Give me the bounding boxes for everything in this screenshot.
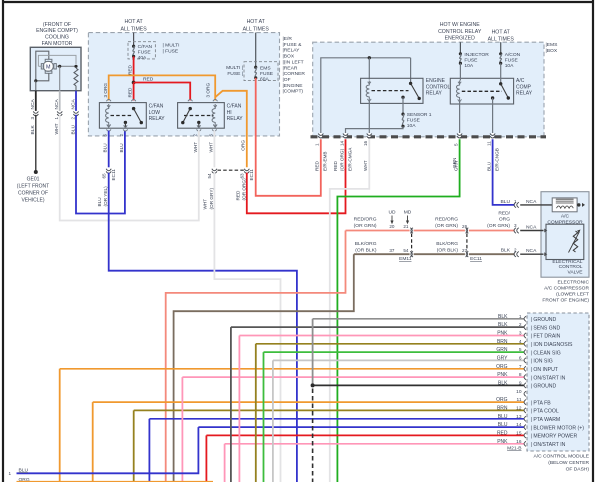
- wire BLK motor pin 3: [35, 91, 37, 112]
- wire module pin 15 vertical: [205, 435, 207, 482]
- svg-text:| FET DRAIN: | FET DRAIN: [531, 334, 561, 340]
- svg-text:BLK/ORG: BLK/ORG: [436, 241, 458, 247]
- svg-text:PNK: PNK: [497, 331, 508, 337]
- module pin 7 connector arc: [524, 366, 526, 371]
- relay C/FAN LOW box: [99, 103, 146, 129]
- svg-text:NCA: NCA: [526, 224, 537, 230]
- EMS box pin 11 connector arcs: [491, 133, 494, 137]
- wire WHT (OR GRY) 54 down to bottom: [214, 173, 280, 482]
- svg-text:10A: 10A: [505, 63, 514, 69]
- svg-text:5: 5: [103, 134, 108, 137]
- wire module pin 7 vertical: [59, 369, 61, 482]
- svg-text:| GROUND: | GROUND: [531, 317, 557, 323]
- svg-text:BLU: BLU: [103, 143, 108, 153]
- svg-text:E/R-CNGB: E/R-CNGB: [494, 148, 499, 171]
- wire module pin 12 vertical: [133, 410, 135, 482]
- svg-text:9: 9: [519, 380, 522, 386]
- svg-text:|(IN LEFT: |(IN LEFT: [283, 59, 304, 65]
- svg-text:BLU: BLU: [498, 414, 508, 420]
- svg-text:11: 11: [486, 141, 491, 146]
- svg-text:CORNER OF: CORNER OF: [18, 191, 48, 197]
- svg-text:2: 2: [70, 117, 75, 120]
- connector EC11 on BLK/ORG row: [465, 253, 469, 256]
- svg-text:(OR ORG): (OR ORG): [339, 148, 344, 171]
- svg-text:C/FAN: C/FAN: [227, 104, 242, 110]
- svg-text:| PTA WARM: | PTA WARM: [531, 417, 561, 423]
- svg-text:COMP: COMP: [516, 84, 532, 90]
- engine control relay dashed link: [372, 90, 409, 92]
- svg-text:HOT AT: HOT AT: [492, 30, 511, 36]
- wire A/C comp relay coil to EMS pin 5: [459, 102, 461, 134]
- svg-text:VEHICLE): VEHICLE): [21, 198, 44, 204]
- svg-text:RED: RED: [235, 190, 240, 201]
- A/C compressor box (shaded): [541, 192, 589, 278]
- wire motor BLK inside box: [35, 81, 37, 91]
- svg-text:(OR GRN): (OR GRN): [354, 223, 377, 229]
- connector compressor pin1: [514, 202, 516, 207]
- svg-text:NCA: NCA: [30, 98, 36, 109]
- svg-text:OF DASH): OF DASH): [566, 467, 590, 473]
- svg-text:ELECTRICAL: ELECTRICAL: [552, 259, 582, 265]
- svg-text:FUSE: FUSE: [138, 50, 152, 56]
- svg-text:5: 5: [519, 347, 522, 353]
- svg-text:MD: MD: [404, 210, 412, 216]
- svg-text:|RELAY: |RELAY: [283, 48, 301, 54]
- svg-text:2: 2: [119, 134, 124, 137]
- module pin 12 connector arc: [524, 408, 526, 413]
- wire BLK module pin 1: [313, 318, 525, 320]
- svg-text:WHT: WHT: [54, 123, 60, 134]
- svg-text:M21-B: M21-B: [507, 445, 521, 451]
- wire GRN EMS pin5 down: [337, 139, 459, 482]
- svg-text:1: 1: [54, 117, 59, 120]
- svg-text:RED: RED: [128, 64, 133, 75]
- wire bus down to engine control relay coil: [368, 58, 370, 80]
- svg-text:RED: RED: [497, 430, 508, 436]
- module pin 14 connector arc: [524, 425, 526, 430]
- C/FAN LOW relay top pin arcs: [106, 99, 111, 101]
- C/FAN HI relay bottom pin arcs: [197, 129, 202, 131]
- svg-text:NCA: NCA: [70, 98, 76, 109]
- fuse EMS FUSE 60A: [254, 66, 257, 69]
- svg-text:20: 20: [389, 224, 395, 229]
- wire WHT motor to fan relay junction: [60, 115, 199, 221]
- svg-text:|CORNER: |CORNER: [283, 71, 306, 77]
- svg-text:37: 37: [389, 248, 395, 253]
- svg-text:A/C CONTROL MODULE: A/C CONTROL MODULE: [533, 454, 589, 460]
- module pin 15 connector arc: [524, 433, 526, 438]
- svg-text:RELAY: RELAY: [426, 91, 443, 97]
- svg-text:3: 3: [519, 331, 522, 337]
- svg-text:BLU: BLU: [19, 467, 29, 473]
- svg-text:CONTROL: CONTROL: [426, 84, 451, 90]
- svg-text:| ION SIG: | ION SIG: [531, 359, 553, 365]
- wire GRY module pin 6: [273, 359, 525, 361]
- svg-text:BLK: BLK: [498, 322, 508, 328]
- A/C comp relay output contact: [491, 96, 494, 99]
- A/C comp relay coil: [456, 81, 459, 103]
- wire NCA stub pin3: [520, 230, 543, 232]
- C/FAN HI relay top pin arcs: [188, 99, 193, 101]
- svg-text:WHT: WHT: [363, 160, 368, 171]
- svg-text:(FRONT OF: (FRONT OF: [43, 22, 71, 28]
- wire BLK to ground GE01: [35, 115, 37, 171]
- wire RED module pin 15: [206, 434, 524, 436]
- motor wire outer loop: [38, 55, 76, 66]
- svg-text:GE01: GE01: [27, 177, 40, 183]
- wire BLK/ORG (OR BLK) compressor row: [354, 253, 515, 255]
- wire BRN module pin 12: [134, 409, 525, 411]
- fuse A/CON FUSE 10A: [499, 52, 502, 55]
- svg-text:16: 16: [516, 439, 522, 445]
- wire ORG module pin 11: [93, 401, 525, 403]
- wire RED (OR ORG) EC11-63 to EMS pin 14: [247, 139, 346, 213]
- arrow MD: [407, 216, 409, 222]
- wire BLU motor pin 2 upper: [75, 91, 77, 112]
- svg-text:HOT W/ ENGINE: HOT W/ ENGINE: [440, 22, 481, 28]
- svg-text:(LOWER LEFT: (LOWER LEFT: [556, 292, 589, 298]
- module pin 4 connector arc: [524, 341, 526, 346]
- svg-text:ALL TIMES: ALL TIMES: [488, 36, 515, 42]
- wire PNK module pin 3: [239, 335, 524, 337]
- svg-text:|REAR: |REAR: [283, 65, 298, 71]
- svg-text:E/R-CMGA: E/R-CMGA: [347, 147, 352, 171]
- svg-text:UD: UD: [388, 210, 396, 216]
- wire motor WHT inside box: [59, 66, 61, 90]
- wire BLK module pin 2: [231, 326, 525, 328]
- svg-text:| MEMORY POWER: | MEMORY POWER: [531, 434, 578, 440]
- wire SENSOR 1 fuse to EMS pin 14: [346, 126, 404, 134]
- connector EC11 on RED/ORG row: [465, 229, 469, 232]
- svg-text:| CLEAN SIG: | CLEAN SIG: [531, 350, 561, 356]
- wire feed to INJECTOR fuse: [459, 42, 461, 54]
- svg-text:8: 8: [519, 372, 522, 378]
- arrow UD: [391, 216, 393, 222]
- svg-text:NCA: NCA: [526, 199, 537, 205]
- wire BLU blower riser: [17, 427, 199, 473]
- connector EC11-54: [213, 168, 216, 172]
- svg-text:| ON/START IN: | ON/START IN: [531, 375, 566, 381]
- svg-text:ENERGIZED: ENERGIZED: [445, 36, 476, 42]
- module pin 11 connector arc: [524, 400, 526, 405]
- svg-text:3: 3: [514, 223, 517, 228]
- svg-text:|FUSE &: |FUSE &: [283, 42, 303, 48]
- wire RED junction down to C/FAN LOW relay pin 1: [133, 83, 135, 101]
- wire feed to C/FAN fuse: [133, 33, 135, 47]
- wire BLU module pin 14: [198, 426, 524, 428]
- C/FAN LOW relay dashed link: [111, 115, 134, 117]
- relay ENGINE CONTROL box: [361, 78, 423, 103]
- wire A/CON fuse to A/C comp relay switch: [500, 63, 502, 84]
- wire module pin 8 vertical: [181, 377, 183, 482]
- svg-text:| BLOWER MOTOR (+): | BLOWER MOTOR (+): [531, 425, 585, 431]
- svg-text:2: 2: [519, 322, 522, 328]
- wire RED fuse to junction: [133, 56, 135, 82]
- wire BLK/ORG vertical then left then down: [174, 254, 354, 482]
- wire BLU module pin 13: [149, 418, 524, 420]
- EMS box pin 1 connector arcs: [319, 133, 322, 137]
- wire feed to A/CON fuse: [500, 42, 502, 54]
- EMS fuse dashed box: [244, 62, 278, 81]
- module pin 6 connector arc: [524, 358, 526, 363]
- wire EMS pin1 riser to relay bus: [321, 58, 411, 134]
- svg-text:E/R-EMB: E/R-EMB: [323, 151, 328, 171]
- svg-text:RED: RED: [315, 160, 320, 171]
- module pin 10 connector arc: [524, 391, 526, 396]
- svg-text:60A: 60A: [260, 77, 269, 83]
- EMS box pin 16 connector arcs: [368, 133, 371, 137]
- svg-text:13: 13: [516, 414, 522, 420]
- svg-text:LOW: LOW: [149, 110, 161, 116]
- module pin 8 connector arc: [524, 375, 526, 380]
- C/FAN LOW relay switch: [132, 107, 135, 110]
- A/C comp relay switch: [499, 82, 502, 85]
- svg-text:1: 1: [315, 143, 320, 146]
- E/R fuse & relay box (shaded, dashed): [88, 33, 279, 136]
- svg-text:10A: 10A: [464, 63, 473, 69]
- svg-text:BLK: BLK: [501, 248, 511, 254]
- fuse SENSOR 1 FUSE 10A: [401, 113, 404, 116]
- node RED junction: [132, 81, 136, 85]
- svg-text:(OR BLK): (OR BLK): [355, 248, 377, 254]
- wire module pin 13 vertical: [148, 419, 150, 482]
- C/FAN LOW relay bottom pin arcs: [106, 129, 111, 131]
- svg-text:3 ORG: 3 ORG: [206, 83, 211, 98]
- connector compressor pin2: [514, 252, 516, 257]
- wire BLK module pin1 riser: [312, 319, 314, 386]
- C/FAN LOW relay output contact: [124, 121, 127, 124]
- svg-text:BLU: BLU: [97, 197, 102, 207]
- wire module pin 4 vertical: [255, 344, 257, 482]
- wire ORG bottom stub: [17, 481, 214, 482]
- svg-text:(OR GRN): (OR GRN): [487, 223, 510, 229]
- svg-text:COOLING: COOLING: [45, 35, 69, 41]
- wire BLU C/FAN LOW pin5 to EC11-65: [108, 131, 110, 168]
- wire BLU EMS pin11 to compressor: [493, 139, 515, 205]
- page frame left border: [2, 0, 4, 482]
- svg-text:| ON INPUT: | ON INPUT: [531, 367, 559, 373]
- arrow into ECV (pin3): [544, 229, 547, 233]
- wire ORG module pin 7: [60, 368, 525, 370]
- ECV variable valve symbol: [573, 231, 577, 252]
- relay A/C COMP box: [450, 78, 513, 104]
- svg-text:|COMPT): |COMPT): [283, 89, 304, 95]
- wire PNK module pin 16: [225, 443, 525, 445]
- connector EM11 on BLK/ORG row: [410, 253, 414, 256]
- svg-text:HI: HI: [227, 110, 232, 116]
- fuse INJECTOR FUSE 10A: [459, 52, 462, 55]
- svg-text:C/FAN: C/FAN: [149, 104, 164, 110]
- svg-text:| PTA COOL: | PTA COOL: [531, 409, 559, 415]
- svg-text:SENSOR 1: SENSOR 1: [407, 112, 432, 118]
- wire injector fuse to A/C comp relay coil: [459, 63, 461, 80]
- node clutch output: [577, 203, 580, 206]
- svg-text:5: 5: [453, 143, 458, 146]
- svg-text:(OR BLK): (OR BLK): [437, 248, 459, 254]
- wire BLK dashed continuation: [312, 389, 314, 482]
- page frame top border: [2, 1, 593, 3]
- svg-text:BLK: BLK: [498, 314, 508, 320]
- svg-text:ENGINE: ENGINE: [426, 78, 446, 84]
- svg-text:| ON/START IN: | ON/START IN: [531, 442, 566, 448]
- svg-text:ELECTRONIC: ELECTRONIC: [557, 280, 589, 286]
- svg-text:| PTA FB: | PTA FB: [531, 400, 552, 406]
- svg-text:4: 4: [519, 339, 522, 345]
- svg-text:M: M: [46, 64, 51, 70]
- module pin 2 connector arc: [524, 325, 526, 330]
- svg-text:| ION DIAGNOSIS: | ION DIAGNOSIS: [531, 342, 573, 348]
- svg-text:EMS: EMS: [260, 66, 271, 72]
- svg-text:ALL TIMES: ALL TIMES: [120, 26, 147, 32]
- module pin 13 connector arc: [524, 416, 526, 421]
- svg-text:RED: RED: [333, 160, 338, 171]
- svg-text:BLU: BLU: [119, 143, 124, 153]
- A/C control module box (shaded, dashed): [527, 313, 589, 451]
- wire NCA stub pin2: [520, 253, 543, 255]
- svg-text:3: 3: [30, 117, 35, 120]
- svg-text:RED/ORG: RED/ORG: [354, 216, 377, 222]
- wire RED EMS fuse to EMS box pin 1: [256, 78, 321, 196]
- wire module pin 11 vertical: [92, 402, 94, 482]
- svg-text:BLK/ORG: BLK/ORG: [355, 241, 377, 247]
- svg-text:FAN MOTOR: FAN MOTOR: [42, 41, 73, 47]
- svg-text:ORG: ORG: [240, 140, 245, 151]
- wire WHT EMS pin16 down: [330, 139, 370, 482]
- page frame right border: [592, 0, 594, 482]
- relay C/FAN HI box: [178, 103, 225, 129]
- C/FAN fuse 40A dashed box: [128, 42, 155, 59]
- wire relay output to SENSOR 1 fuse: [402, 97, 404, 114]
- svg-text:RED/ORG: RED/ORG: [435, 216, 458, 222]
- connector EM11 on RED/ORG row: [410, 229, 414, 232]
- connector NCA on BLK: [34, 111, 37, 115]
- C/FAN HI relay coil: [212, 104, 215, 127]
- svg-text:| FUSE: | FUSE: [163, 49, 179, 55]
- EMS box (shaded, dashed): [313, 42, 544, 137]
- svg-text:RED: RED: [128, 87, 133, 98]
- svg-text:PNK: PNK: [497, 372, 508, 378]
- wire WHT C/FAN HI pin5 to connector 54: [213, 131, 215, 168]
- EMS box bottom thick dashed edge: [311, 135, 547, 138]
- svg-text:| SENS GND: | SENS GND: [531, 325, 561, 331]
- svg-text:63: 63: [239, 173, 244, 179]
- svg-text:21: 21: [403, 224, 409, 229]
- svg-text:EC11: EC11: [111, 169, 116, 181]
- compressor clutch coil symbol: [556, 198, 574, 200]
- svg-text:MULTI |: MULTI |: [226, 65, 243, 71]
- cooling fan motor box: [30, 47, 81, 90]
- svg-text:ENGINE COMPT): ENGINE COMPT): [36, 28, 78, 34]
- dashed link connector 54 to 63: [218, 169, 245, 171]
- A/C comp relay dashed link: [462, 90, 502, 92]
- svg-text:|ENGINE: |ENGINE: [283, 83, 304, 89]
- svg-text:|EMS: |EMS: [546, 42, 559, 48]
- EMS box pin 5 connector arcs: [458, 133, 461, 137]
- svg-text:54: 54: [207, 173, 212, 179]
- svg-text:INJECTOR: INJECTOR: [464, 52, 489, 58]
- svg-text:HOT AT: HOT AT: [247, 19, 266, 25]
- svg-text:BRN: BRN: [497, 405, 508, 411]
- node pin9 ground junction: [311, 383, 315, 387]
- svg-text:1: 1: [519, 314, 522, 320]
- svg-text:BLU: BLU: [498, 422, 508, 428]
- wire GRN module pin 5: [264, 351, 525, 353]
- svg-text:(BELOW CENTER: (BELOW CENTER: [548, 460, 589, 466]
- electrical control valve box: [546, 224, 584, 259]
- svg-text:2: 2: [193, 134, 198, 137]
- svg-text:14: 14: [516, 422, 522, 428]
- svg-text:EC11: EC11: [470, 256, 482, 262]
- svg-text:GRY: GRY: [497, 355, 508, 361]
- svg-text:12: 12: [516, 405, 522, 411]
- wire ORG branch diagonal to EC11-63: [215, 91, 247, 168]
- svg-text:FRONT OF ENGINE): FRONT OF ENGINE): [542, 298, 589, 304]
- wire engine control relay coil to EMS pin 16: [368, 102, 370, 135]
- svg-text:| GROUND: | GROUND: [531, 384, 557, 390]
- svg-text:|OF: |OF: [283, 77, 291, 83]
- svg-text:FUSE: FUSE: [407, 118, 421, 124]
- svg-text:ORG: ORG: [496, 364, 508, 370]
- node motor resistor tap: [74, 65, 77, 68]
- svg-text:BLU: BLU: [486, 161, 491, 171]
- wire NCA stub pin1: [520, 204, 552, 206]
- svg-text:(OR GRN): (OR GRN): [435, 223, 458, 229]
- svg-text:WHT: WHT: [203, 199, 208, 210]
- wire feed to EMS fuse: [255, 33, 257, 68]
- svg-text:1: 1: [8, 471, 11, 476]
- wire ORG C/FAN LOW coil to bus: [109, 75, 216, 100]
- motor wire right brush lead to resistor node: [56, 65, 76, 67]
- wire PNK module pin 8: [182, 376, 524, 378]
- wire RED junction to C/FAN HI relay pin 1: [134, 83, 191, 101]
- svg-text:WHT: WHT: [208, 142, 213, 153]
- wire module pin 3 vertical: [238, 336, 240, 482]
- svg-text:40A: 40A: [138, 55, 147, 61]
- svg-text:(OR YEL): (OR YEL): [103, 186, 108, 207]
- svg-text:|BOX: |BOX: [283, 54, 295, 60]
- resistor (fan motor series resistor): [74, 68, 78, 86]
- svg-text:7: 7: [519, 364, 522, 370]
- svg-text:10A: 10A: [407, 123, 416, 129]
- svg-text:C/FAN: C/FAN: [138, 44, 153, 50]
- connector EC11-63: [246, 168, 249, 172]
- fuse C/FAN FUSE 40A: [132, 45, 135, 48]
- engine control relay coil: [366, 81, 369, 102]
- C/FAN HI relay output contact: [197, 121, 200, 124]
- svg-text:BLU: BLU: [500, 199, 510, 205]
- wire BLU motor to C/FAN LOW relay pin 2: [76, 115, 125, 214]
- compressor clutch coil box: [552, 198, 577, 212]
- dashed link EC11 rows: [466, 234, 468, 252]
- node motor BLK junction: [34, 79, 37, 82]
- motor M1 symbol: [43, 61, 53, 71]
- wire BLU (OR YEL) EC11-65 down and right: [109, 173, 297, 482]
- C/FAN HI relay switch: [189, 107, 192, 110]
- svg-text:(LEFT FRONT: (LEFT FRONT: [17, 184, 49, 190]
- svg-text:14: 14: [339, 140, 344, 146]
- svg-text:RED: RED: [143, 77, 154, 83]
- module pin 1 connector arc: [524, 316, 526, 321]
- wire module pin 5 vertical: [263, 352, 265, 482]
- svg-text:GRN: GRN: [496, 347, 508, 353]
- wire A/C comp relay output to EMS pin 11: [492, 98, 494, 134]
- wire BRN module pin 4: [256, 343, 525, 345]
- ground GE01: [34, 170, 38, 174]
- svg-text:(OR ORG): (OR ORG): [241, 178, 246, 201]
- svg-text:FUSE: FUSE: [505, 58, 519, 64]
- wire resistor to box bottom: [75, 86, 77, 91]
- svg-text:BLU: BLU: [70, 125, 76, 135]
